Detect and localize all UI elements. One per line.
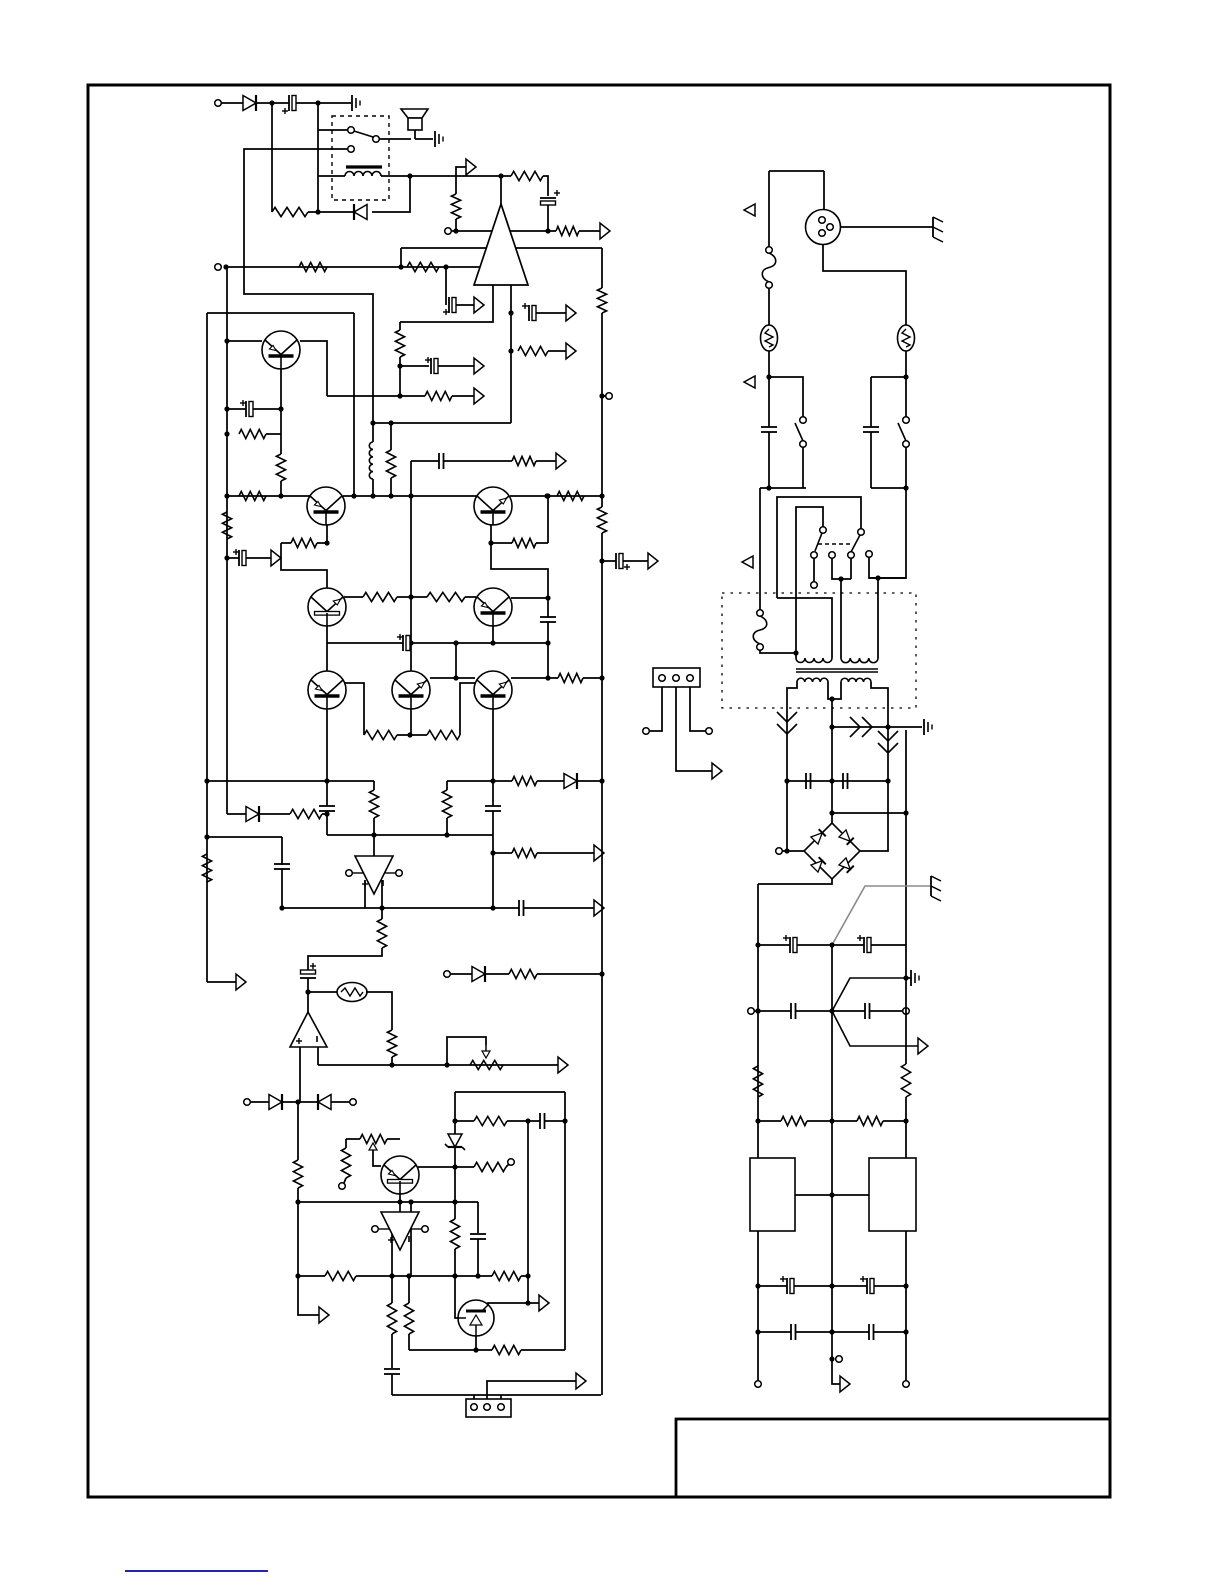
terminal [444, 971, 451, 978]
ground [351, 95, 353, 111]
capacitor C16 [384, 1368, 400, 1370]
wire [796, 1010, 865, 1012]
connector arrow [600, 223, 610, 239]
terminal [350, 1099, 357, 1106]
wire [487, 1381, 576, 1399]
wire [346, 1138, 360, 1140]
wire [298, 1275, 325, 1277]
wire [832, 812, 906, 814]
resistor R33 [509, 969, 537, 978]
wire [537, 852, 594, 854]
junction [204, 834, 209, 839]
wire [455, 1120, 474, 1122]
wire [281, 837, 283, 865]
transistor Q7 [392, 671, 430, 709]
capacitor C18 [615, 553, 617, 569]
junction [453, 640, 458, 645]
junction [279, 905, 284, 910]
connector J3 [653, 668, 700, 687]
relay contact throw [373, 136, 380, 143]
switch contact [800, 417, 807, 424]
transformer secondary 2 [841, 678, 871, 682]
wire [455, 176, 457, 194]
resistor R22 [427, 592, 465, 601]
wire [366, 992, 392, 1030]
terminal [836, 1356, 843, 1363]
wire [506, 1164, 509, 1167]
wire [758, 944, 790, 946]
wire [326, 525, 328, 543]
wire [860, 781, 888, 851]
wire [769, 377, 803, 417]
junction [544, 493, 549, 498]
transformer core [796, 668, 878, 670]
wire [832, 726, 922, 728]
resistor R39 [492, 1345, 521, 1354]
capacitor C13 [518, 900, 520, 916]
wire [583, 677, 602, 679]
selector contact [811, 582, 818, 589]
wire [527, 1121, 529, 1303]
resistor R9 [518, 346, 548, 355]
wire [511, 542, 512, 544]
junction [224, 406, 229, 411]
rail wire [601, 248, 603, 288]
relay core bar [346, 165, 382, 168]
bus wire [227, 495, 310, 497]
wire [869, 577, 906, 579]
junction [490, 850, 495, 855]
wire [308, 948, 382, 970]
connector pin 1 [659, 675, 666, 682]
wire [905, 730, 907, 978]
wire [280, 409, 282, 454]
wire [400, 285, 493, 322]
wire [400, 248, 402, 267]
junction [490, 640, 495, 645]
wire [768, 377, 770, 427]
junction [370, 420, 375, 425]
junction [324, 540, 329, 545]
wire [390, 478, 392, 496]
wire [282, 907, 519, 909]
resistor R41 [387, 1303, 396, 1334]
connector pin 2 [673, 675, 680, 682]
rectifier arrow [850, 717, 860, 737]
transformer primary 2 [841, 658, 878, 663]
wire [410, 643, 412, 671]
resistor R19 [291, 538, 317, 547]
wire [758, 1120, 781, 1122]
junction [371, 832, 376, 837]
wire [401, 247, 602, 249]
wire [548, 350, 566, 352]
junction [784, 778, 789, 783]
wire [796, 1331, 869, 1333]
wire [543, 176, 548, 196]
wire [794, 1285, 867, 1287]
wire [411, 460, 439, 462]
wire [318, 175, 345, 177]
capacitor C27 [786, 1278, 788, 1294]
transistor Q4 [308, 588, 346, 626]
wire [227, 557, 239, 559]
wire [331, 1101, 350, 1103]
wire [547, 598, 549, 618]
connector arrow [319, 1307, 329, 1323]
resistor R18 [512, 456, 536, 465]
wire [874, 1285, 906, 1287]
relay lever [354, 131, 373, 137]
fuse terminal [766, 282, 773, 289]
rectifier arrow [777, 712, 797, 722]
fuse terminal [757, 644, 764, 651]
terminal [508, 1159, 515, 1166]
lamp LA1 [337, 983, 367, 1002]
junction [903, 810, 908, 815]
terminal [755, 1381, 762, 1388]
connector pin 3 [498, 1404, 505, 1411]
capacitor C12 [274, 863, 290, 865]
junction [379, 905, 384, 910]
resistor R20 [512, 538, 536, 547]
connector triangle [744, 376, 755, 388]
junction [508, 348, 513, 353]
wire [870, 377, 872, 427]
wire [492, 626, 494, 643]
wire [356, 1275, 492, 1277]
junction [324, 778, 329, 783]
connector arrow [712, 763, 722, 779]
junction [452, 1273, 457, 1278]
wire [777, 598, 832, 658]
terminal [748, 1008, 755, 1015]
capacitor C26 [864, 1003, 866, 1019]
capacitor C3 [448, 297, 450, 313]
wire [832, 1011, 918, 1046]
wire [299, 1047, 301, 1102]
wire [602, 560, 616, 562]
potentiometer wiper [369, 1143, 377, 1150]
wire [797, 944, 864, 946]
junction [903, 485, 908, 490]
rail wire [757, 1231, 759, 1381]
wire [271, 103, 273, 212]
wire [390, 423, 392, 450]
junction [397, 393, 402, 398]
junction [525, 1300, 530, 1305]
capacitor C29 [790, 1324, 792, 1340]
wire [410, 461, 412, 496]
junction [755, 1008, 760, 1013]
wire [410, 709, 412, 735]
fuse F1 [762, 253, 776, 282]
wire [387, 1138, 400, 1140]
regulator U5 [750, 1158, 795, 1231]
junction [224, 555, 229, 560]
wire [760, 487, 806, 489]
capacitor C23 [789, 937, 791, 953]
junction [490, 778, 495, 783]
wire [250, 1101, 269, 1103]
resistor R32 [387, 1030, 396, 1057]
wire [492, 709, 494, 806]
connector arrow [648, 553, 658, 569]
junction [829, 778, 834, 783]
junction [269, 100, 274, 105]
junction [903, 1118, 908, 1123]
junction [545, 595, 550, 600]
transistor Q3 [474, 487, 512, 525]
wire [769, 170, 824, 172]
connector arrow [594, 900, 604, 916]
diode D2 [353, 204, 355, 220]
wire [807, 1120, 857, 1122]
diode D3 [246, 807, 259, 822]
wire [281, 542, 291, 544]
wire [871, 944, 906, 946]
resistor R21 [363, 592, 397, 601]
wire [391, 1374, 393, 1395]
wire [548, 677, 558, 679]
wire [272, 102, 289, 104]
wire [322, 813, 327, 815]
wire [372, 479, 374, 496]
resistor R26 [290, 809, 322, 818]
wire [379, 138, 411, 140]
ground wire [832, 978, 904, 1011]
wire [326, 709, 328, 806]
transistor Q8 [474, 671, 512, 709]
wire [372, 423, 374, 442]
wire [768, 288, 770, 326]
resistor R10 [239, 429, 266, 438]
transformer primary 1 [796, 658, 832, 663]
wire [318, 102, 351, 104]
wire [318, 211, 354, 213]
wire [782, 850, 804, 852]
wire [906, 977, 911, 979]
op-amp U4 [381, 1212, 419, 1250]
connector arrow [566, 343, 576, 359]
junction [475, 1273, 480, 1278]
terminal [215, 264, 222, 271]
wire [528, 1302, 539, 1304]
junction [599, 778, 604, 783]
switch contact [903, 417, 910, 424]
wire [536, 542, 548, 544]
junction [599, 493, 604, 498]
wire [373, 818, 375, 835]
rail wire [206, 313, 208, 982]
wire [410, 1202, 412, 1276]
wire [491, 542, 512, 544]
resistor R49 [857, 1116, 883, 1125]
junction [444, 832, 449, 837]
wire [280, 369, 282, 409]
junction [488, 540, 493, 545]
connector arrow [558, 1057, 568, 1073]
wire [500, 1395, 502, 1399]
capacitor C11 [485, 805, 501, 807]
wire [317, 1047, 319, 1065]
wire [507, 1120, 540, 1122]
wire [828, 682, 832, 699]
resistor R12 [222, 512, 231, 539]
wire [344, 1178, 346, 1183]
wire [649, 687, 662, 731]
junction [545, 493, 550, 498]
junction [829, 1329, 834, 1334]
junction [545, 228, 550, 233]
junction [903, 1329, 908, 1334]
wire [473, 1395, 475, 1399]
junction [490, 905, 495, 910]
resistor R6 [407, 262, 439, 271]
junction [829, 1118, 834, 1123]
mains connector P1 [806, 210, 841, 245]
connector arrow [466, 159, 476, 175]
junction [295, 1199, 300, 1204]
resistor R40 [404, 1303, 413, 1334]
rail wire [905, 1097, 907, 1158]
wire [521, 1275, 528, 1277]
wire [353, 313, 355, 496]
connector arrow [474, 358, 484, 374]
junction [389, 1273, 394, 1278]
wire [547, 205, 549, 231]
wire [547, 496, 549, 543]
junction [324, 811, 329, 816]
wire [795, 653, 797, 658]
wire [445, 267, 447, 305]
relay contact throw 2 [348, 146, 355, 153]
terminal [706, 728, 713, 735]
selector contact [829, 552, 836, 559]
junction [525, 1118, 530, 1123]
terminal [903, 1381, 910, 1388]
bus wire [327, 834, 493, 836]
wire [244, 149, 373, 423]
rail wire [564, 1092, 566, 1350]
bridge diode [839, 858, 850, 869]
wire [318, 129, 348, 131]
wire [455, 1249, 458, 1318]
capacitor C19 [761, 426, 777, 428]
wire [451, 230, 548, 232]
resistor R48 [781, 1116, 807, 1125]
capacitor C6 [245, 401, 247, 417]
rail wire [905, 978, 907, 1064]
potentiometer RV1 [470, 1060, 503, 1069]
wire [430, 677, 475, 679]
wire [492, 811, 494, 835]
inductor L1 [369, 442, 373, 479]
junction [223, 264, 228, 269]
terminal [903, 1008, 910, 1015]
wire [227, 340, 262, 342]
wire [871, 376, 906, 378]
connector pin 1 [471, 1404, 478, 1411]
wire [455, 219, 457, 231]
wire [298, 1101, 318, 1103]
switch lever [795, 423, 803, 441]
rail wire [831, 945, 833, 1286]
junction [755, 1283, 760, 1288]
rail wire [757, 884, 759, 1158]
fuse terminal [757, 610, 764, 617]
wire [905, 351, 907, 377]
wire [415, 138, 433, 140]
pin [819, 230, 826, 237]
connector arrow [271, 550, 281, 566]
wire [477, 1239, 479, 1276]
wire [802, 447, 804, 488]
terminal [244, 1099, 251, 1106]
transistor Q5 [474, 588, 512, 626]
resistor R34 [293, 1160, 302, 1188]
capacitor C10 [319, 805, 335, 807]
wire [298, 1201, 478, 1203]
wire [256, 102, 272, 104]
resistor R29 [512, 776, 537, 785]
junction [408, 640, 413, 645]
bridge rectifier BR1 [804, 823, 860, 879]
wire [545, 1120, 565, 1122]
resistor R5 [299, 262, 327, 271]
wire [602, 395, 606, 397]
wire [391, 1334, 393, 1368]
connector arrow [840, 1376, 850, 1392]
regulator U6 [869, 1158, 916, 1231]
junction [525, 1273, 530, 1278]
wire [418, 1166, 455, 1168]
wire [501, 175, 511, 177]
wire [823, 171, 825, 209]
junction [407, 173, 412, 178]
connector arrow [556, 453, 566, 469]
wire [754, 1010, 791, 1012]
rail wire [226, 267, 228, 814]
wire [397, 596, 411, 598]
selector lever [815, 533, 822, 551]
junction [545, 640, 550, 645]
junction [204, 778, 209, 783]
wire [373, 835, 375, 856]
wire [446, 781, 448, 790]
junction [829, 1283, 834, 1288]
op-amp offset pins [346, 870, 353, 877]
junction [755, 1118, 760, 1123]
resistor R16 [239, 491, 266, 500]
resistor R38 [474, 1116, 507, 1125]
chassis ground [932, 217, 934, 237]
resistor R31 [377, 919, 386, 948]
junction [829, 1008, 834, 1013]
junction [903, 975, 908, 980]
wire [454, 1121, 456, 1134]
wire [207, 780, 374, 782]
transformer box [722, 593, 916, 708]
wire [787, 682, 797, 781]
diode D7 [317, 1094, 319, 1110]
resistor R8 [425, 391, 452, 400]
junction [443, 264, 448, 269]
wire [690, 687, 706, 731]
wire [381, 175, 410, 177]
connector pin 2 [484, 1404, 491, 1411]
wire [207, 312, 354, 314]
